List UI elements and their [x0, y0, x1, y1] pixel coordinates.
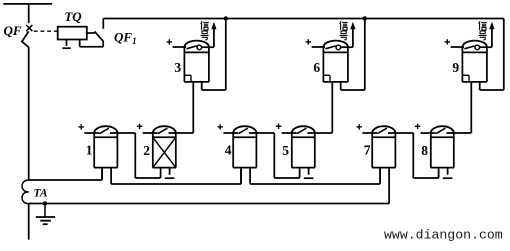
svg-text:7: 7 [364, 143, 371, 158]
svg-text:TQ: TQ [64, 9, 82, 24]
svg-text:TA: TA [33, 188, 47, 200]
svg-text:8: 8 [421, 143, 428, 158]
svg-text:5: 5 [282, 143, 289, 158]
svg-text:2: 2 [143, 143, 150, 158]
svg-text:4: 4 [225, 143, 232, 158]
svg-text:QF: QF [3, 23, 21, 38]
svg-text:www.diangon.com: www.diangon.com [384, 228, 503, 243]
svg-text:6: 6 [313, 60, 320, 75]
svg-text:3: 3 [174, 60, 181, 75]
svg-text:9: 9 [452, 60, 459, 75]
svg-text:1: 1 [86, 143, 93, 158]
